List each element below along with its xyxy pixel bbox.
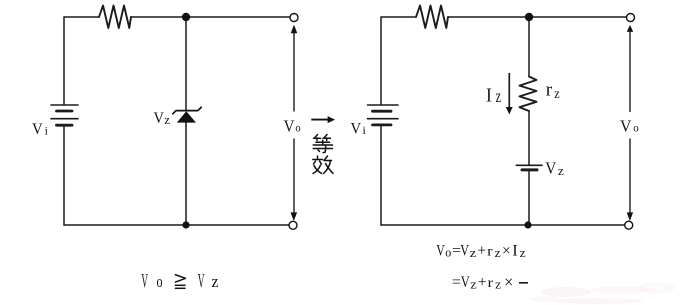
formula: Vo = Vz + rz x Iz (line 1) [436, 242, 526, 259]
watermark smudge (faint pink, bottom right) [531, 282, 675, 304]
svg-text:V: V [32, 121, 43, 138]
svg-text:I: I [486, 85, 492, 107]
svg-text:V: V [351, 121, 362, 138]
battery V1' plate 2 (short thick) [373, 110, 392, 113]
svg-text:o: o [633, 120, 638, 134]
terminal: left circuit bottom-right (open circle) [289, 221, 297, 229]
svg-text:z: z [495, 245, 501, 260]
label V1 (left circuit) [32, 121, 49, 138]
wire: right circuit top, resistor to terminal [448, 16, 627, 18]
svg-text:+: + [477, 242, 486, 259]
resistor R2 (right circuit, top) [416, 6, 448, 29]
resistor R1 (left circuit, top) [99, 6, 131, 29]
formula: = Vz + rz x (line 2) [452, 272, 513, 291]
battery V1 plate 3 (long) [51, 118, 78, 120]
arrowhead down (right Vo line, bottom) [627, 212, 633, 221]
node: left circuit top junction dot [182, 13, 190, 21]
wire: rz to battery VZ [528, 111, 530, 164]
label V1 (right circuit) [351, 121, 367, 138]
svg-text:z: z [212, 272, 219, 291]
svg-text:z: z [470, 245, 477, 260]
svg-text:×: × [504, 272, 513, 291]
svg-text:V: V [436, 242, 445, 259]
arrowhead down (left Vo line, bottom) [291, 212, 298, 221]
svg-text:z: z [520, 245, 526, 260]
arrowhead up (left Vo line, top) [291, 25, 298, 34]
svg-text:V: V [284, 116, 295, 135]
wire: left circuit top-left segment [64, 16, 99, 18]
svg-text:z: z [496, 86, 501, 106]
battery V1 plate 1 (long) [51, 104, 78, 106]
battery V1 plate 4 (short thick) [57, 124, 73, 127]
svg-text:V: V [461, 274, 470, 291]
svg-text:V: V [545, 159, 557, 178]
hanzi XIAO (效) [313, 156, 333, 174]
svg-text:o: o [295, 121, 300, 135]
wire: left circuit left side (battery to top) [63, 17, 65, 104]
wire: right circuit middle branch (top to rz) [528, 17, 530, 77]
battery V1' plate 4 (short thick) [373, 124, 392, 127]
wire: right circuit top-left segment [381, 16, 416, 18]
label VZ (left circuit zener) [154, 110, 171, 127]
symbol: greater-than-over-equals [175, 275, 186, 289]
terminal: right circuit bottom-right (open circle) [625, 221, 633, 229]
svg-text:V: V [620, 116, 632, 135]
node: right circuit top junction dot [525, 13, 533, 21]
svg-text:r: r [487, 244, 493, 259]
svg-text:V: V [198, 270, 205, 292]
Vo measurement line (right circuit) [629, 32, 631, 213]
wire: right circuit left side (battery to bottom) [380, 126, 382, 225]
battery V1 plate 2 (short thick) [57, 110, 73, 113]
node: left circuit bottom junction dot [182, 221, 189, 228]
node: right circuit bottom junction dot [524, 221, 531, 228]
svg-text:I: I [512, 242, 518, 259]
zener diode VZ triangle [177, 111, 196, 122]
wire: left circuit middle branch lower [185, 123, 187, 225]
zener diode VZ bar (bent ends) [173, 107, 202, 114]
svg-text:V: V [154, 110, 165, 127]
svg-text:z: z [495, 277, 501, 292]
svg-text:×: × [502, 243, 511, 260]
terminal: right circuit top-right (open circle) [627, 14, 635, 22]
svg-text:V: V [141, 270, 148, 292]
terminal: left circuit top-right (open circle) [290, 14, 298, 22]
svg-text:o: o [157, 272, 163, 291]
svg-text:z: z [558, 163, 564, 178]
wire: right circuit bottom [381, 224, 625, 226]
Vo measurement line (left circuit) [293, 33, 295, 213]
svg-text:o: o [445, 244, 451, 259]
equivalence arrow [311, 119, 328, 121]
svg-text:r: r [488, 276, 494, 291]
hanzi DENG (等) [313, 135, 332, 153]
wire: battery VZ to bottom [528, 172, 530, 226]
svg-text:+: + [478, 274, 487, 291]
label Vo (right circuit output) [620, 116, 639, 135]
svg-text:z: z [554, 87, 559, 102]
wire: left circuit bottom [64, 224, 289, 226]
wire: right circuit left side (top to battery) [380, 17, 382, 104]
label rz (resistor) [546, 80, 560, 103]
battery VZ plate 1 (long) [516, 164, 542, 166]
wire: left circuit left side (battery to bottom) [63, 127, 65, 226]
battery V1' plate 3 (long) [368, 118, 399, 120]
current Iz arrow (line) [508, 73, 510, 107]
svg-text:z: z [164, 112, 170, 127]
caption: Vo >= Vz (left) [141, 270, 219, 292]
label Vo (left circuit output) [284, 116, 301, 135]
resistor rz (vertical zigzag) [520, 77, 537, 112]
label Iz (current) [486, 85, 501, 107]
current Iz arrowhead (down) [506, 107, 513, 115]
svg-text:r: r [546, 80, 553, 101]
battery V1' plate 1 (long) [368, 104, 399, 106]
svg-text:z: z [470, 276, 477, 291]
dash after formula line 2 [519, 282, 528, 284]
label VZ (right battery) [545, 159, 564, 178]
wire: left circuit top, resistor to terminal [131, 16, 290, 18]
arrowhead up (right Vo line, top) [627, 25, 633, 32]
wire: left circuit middle branch upper [185, 17, 187, 110]
svg-text:V: V [460, 242, 469, 259]
battery VZ plate 2 (short thick) [522, 168, 537, 171]
